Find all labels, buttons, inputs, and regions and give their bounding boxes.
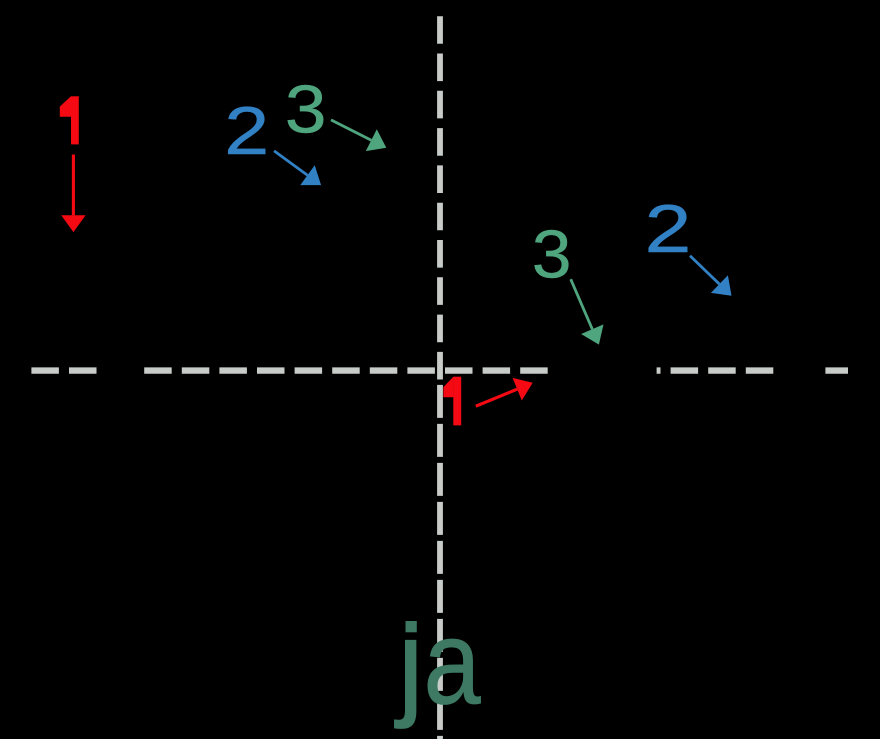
arrow 2 (blue, pointing down-right) [274,151,321,185]
occlusion over real axis (hidden markers) middle-right [548,364,657,378]
arrow 1 (red, pointing down) [61,155,85,233]
svg-text:a: a [424,595,482,729]
arrow 3 right (green, pointing down-left) [571,279,604,344]
branch label 1 (at origin, red) [443,377,461,426]
svg-text:3: 3 [532,216,572,292]
occlusion over real axis (hidden marker) left [97,364,142,378]
vertical axis (imaginary axis, dashed) [437,16,443,379]
svg-text:2: 2 [645,191,692,266]
horizontal axis (real axis, dashed) [31,367,848,373]
svg-text:2: 2 [224,92,269,168]
arrow 2 right (blue, pointing down-right) [690,256,732,296]
axis label ja (imaginary axis) [394,595,481,730]
vertical axis lower half (dashed) [437,385,443,739]
arrow 3 (green, pointing down-right) [331,120,386,151]
arrow 1 origin (red, pointing up-right) [476,378,533,406]
svg-text:ȷ: ȷ [394,595,424,729]
svg-text:3: 3 [285,71,327,147]
branch label 1 (top left) [60,96,79,144]
occlusion over real axis (hidden marker) far right [775,364,826,378]
